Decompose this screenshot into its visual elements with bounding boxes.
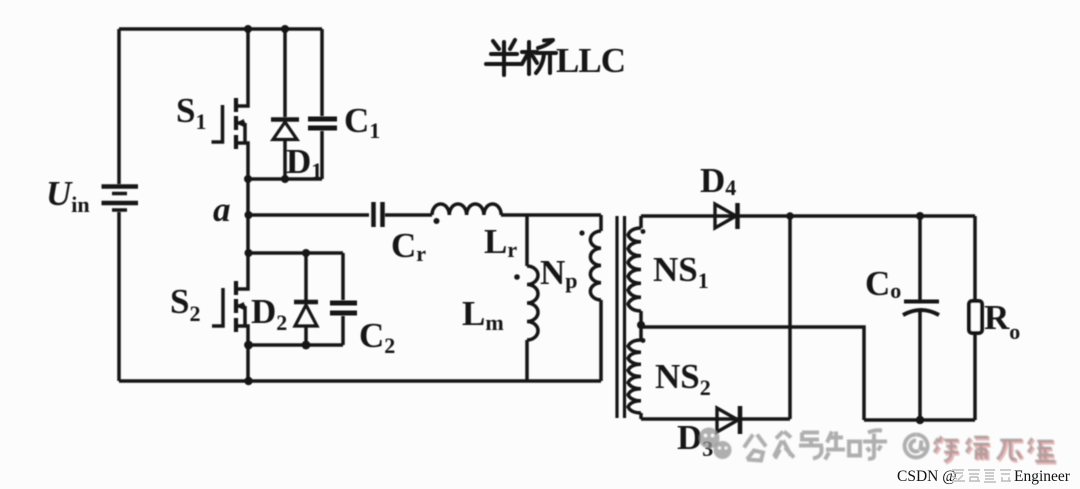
svg-text:CSDN @: CSDN @ (897, 468, 957, 485)
svg-text:LLC: LLC (556, 41, 625, 80)
svg-text:Engineer: Engineer (1014, 468, 1071, 485)
svg-text:a: a (213, 190, 231, 229)
